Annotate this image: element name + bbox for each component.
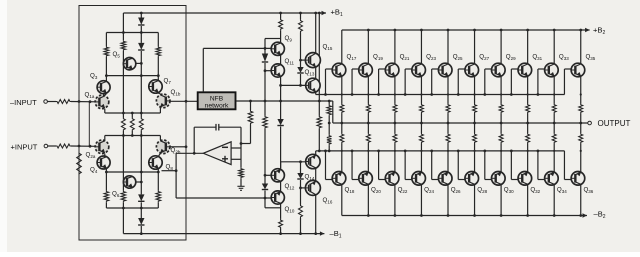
wire (Q18 collector) [341,185,343,216]
resistor (Q26 source R) [446,133,450,144]
node [553,93,555,95]
resistor (Q9 collector) [279,19,283,31]
Q7 label [164,78,172,85]
wire [300,13,302,19]
wire [104,154,106,157]
node [299,232,302,235]
wire (Q13 gate) [281,84,306,86]
wire [158,92,160,95]
node [553,150,555,152]
wire [351,69,353,95]
wire (Q20 emitter) [367,123,369,133]
wire (top interior line) [106,32,158,34]
transistor Q16 [305,180,320,195]
resistor (Q7 collector load) [156,46,161,57]
wire [159,136,161,141]
resistor (Q24 source R) [419,133,423,144]
wire [500,114,502,124]
transistor Q17 [332,63,346,77]
resistor (Q33 source R) [552,104,556,114]
wire [158,154,160,157]
resistor (input bias, on box edge) [77,152,82,175]
diode D4 (bias) [138,218,144,225]
wire (Q18 base) [326,179,333,181]
wire [315,92,317,94]
wire (Q30 base) [485,179,492,181]
resistor R-in1 (series -input) [56,100,71,104]
node [105,171,108,174]
resistor (gate bleed) [317,116,322,130]
resistor R-in2 (series +input) [56,144,71,148]
+B2 arrow [585,28,590,32]
node [580,93,582,95]
resistor (servo +in) [239,168,244,179]
wire [140,226,142,234]
node [341,93,343,95]
wire [159,108,161,113]
wire [527,144,529,172]
wire [510,69,512,95]
node [457,150,460,153]
node [377,150,380,153]
node [526,29,529,32]
wire [280,182,282,192]
node [185,145,188,148]
transistor Q24 [412,172,426,186]
node [447,122,450,125]
resistor (Q3 collector load) [104,46,109,57]
node [299,59,302,62]
Q31 label [532,54,542,61]
wire (Q28 emitter) [474,123,476,133]
wire [300,180,302,188]
node [340,122,343,125]
resistor (driver source R top) [327,105,332,117]
node [377,93,380,96]
Q3 label [90,73,98,80]
node [89,145,92,148]
wire [280,85,282,119]
transistor Q29 [492,63,506,77]
wire (Q23 emitter) [420,77,422,104]
node [430,93,433,96]
wire (Q30 collector) [500,185,502,216]
wire (Q35 emitter) [580,77,582,104]
transistor Q35 [571,63,585,77]
wire (Q22 emitter) [394,123,396,133]
wire (Q12 base) [265,174,271,176]
node [420,93,422,95]
wire [431,151,433,180]
transistor Q21 [385,63,399,77]
node [175,169,178,172]
wire (bottom gate bus) [316,150,565,152]
node [579,29,582,32]
resistor (Q20 source R) [366,133,370,144]
wire [140,131,142,136]
wire (Q19 emitter) [367,77,369,104]
wire (servo to lower drive) [175,153,177,198]
wire [264,101,266,116]
wire [431,69,433,95]
wire (Q24 base) [405,179,412,181]
wire [447,144,449,172]
resistor (Q36 source R) [579,133,583,144]
transistor Q6 [123,176,135,188]
wire (Q16 source) [315,195,317,234]
resistor (Q25 source R) [446,104,450,114]
OUTPUT label [598,119,631,128]
transistor Q4 [97,156,110,169]
wire (Q29 emitter) [500,77,502,104]
transistor Q19 [359,63,373,77]
node [394,93,396,95]
node [420,122,423,125]
input stage enclosure box [79,6,186,241]
node [500,122,503,125]
svg-text:network: network [205,103,229,110]
node [328,150,331,153]
wire (Q6 collector stub) [136,181,142,183]
wire (bleed column) [318,13,320,116]
wire (bias bridge bottom) [265,207,281,209]
wire [580,114,582,124]
node [140,171,143,174]
svg-text:+INPUT: +INPUT [11,143,38,152]
capacitor C1 [216,124,219,131]
node [122,112,125,115]
wire [105,33,107,47]
wire [140,136,142,195]
node [240,142,243,145]
transistor Q23 [412,63,426,77]
node [328,122,331,125]
wire [264,175,266,183]
transistor Q9 [271,42,284,55]
wire (Q1b base to summing node) [170,100,197,102]
wire [537,69,539,95]
node [473,122,476,125]
wire (Q23 base) [405,68,412,70]
node [510,93,513,96]
-B1 label [330,229,342,239]
node [264,69,267,72]
-B1 arrow [320,231,325,235]
wire (input tie) [88,102,90,147]
node [157,171,160,174]
transistor Q32 [518,172,532,186]
transistor Q14 [306,154,320,168]
node [527,150,529,152]
wire (Q29 collector) [500,30,502,63]
wire [394,144,396,172]
node [264,197,267,200]
Q18 label [345,187,355,194]
wire [122,131,124,136]
wire (Q5 collector stub) [136,62,142,64]
wire (Q32 collector) [527,185,529,216]
transistor Q5 [123,58,135,70]
wire [367,144,369,172]
wire [265,38,281,40]
wire [105,202,107,208]
wire [420,114,422,124]
wire [280,55,282,64]
node [140,207,143,210]
wire [104,136,106,141]
wire [105,169,107,191]
node (+input / box edge) [78,145,81,148]
transistor Q28 [465,172,479,186]
node [264,47,267,50]
wire (Q19 collector) [367,30,369,63]
wire [328,116,330,135]
node [430,150,433,153]
Q1b label [171,89,181,96]
node [500,29,503,32]
wire [484,151,486,180]
node [510,150,513,153]
transistor Q15 [305,53,320,68]
node [341,150,343,152]
wire [140,113,142,118]
wire [140,51,142,113]
resistor (Q16 gate feed) [299,205,303,219]
wire [420,144,422,172]
wire [105,94,106,96]
diode D9 [297,173,303,179]
wire (Q31 base) [511,68,518,70]
wire (Q25 emitter) [447,77,449,104]
node [279,100,282,103]
wire [328,101,330,105]
resistor (Q34 source R) [552,133,556,144]
node [122,134,125,137]
Q36 label [583,187,593,194]
node [157,74,160,77]
transistor Q25 [438,63,452,77]
wire (Q6 base feed) [122,136,124,191]
wire [553,114,555,124]
node [314,232,317,235]
node [404,93,407,96]
Q9 label [285,35,293,42]
node [420,150,422,152]
wire [122,13,124,40]
node [447,29,450,32]
resistor (Q19 source R) [366,104,370,114]
node [473,93,475,95]
Q4 label [90,167,98,174]
wire (bottom interior line) [106,207,158,209]
wire (Q36 emitter) [580,123,582,133]
resistor (Q8 load) [156,190,161,202]
-INPUT terminal [44,100,48,104]
wire (Q32 emitter) [527,123,529,133]
wire (Q17 emitter) [341,77,343,104]
diode D5 (centre bias) [277,119,283,126]
wire [240,179,242,187]
Q19 label [373,54,383,61]
wire [328,145,330,151]
wire [280,204,282,219]
wire [231,147,241,149]
wire (Q24 collector) [420,185,422,216]
wire (Q20 collector) [367,185,369,216]
node [483,93,486,96]
wire [474,114,476,124]
diode D6 (Q9/Q11 bias) [262,54,268,63]
wire [104,109,106,113]
wire (Q20 base) [352,179,359,181]
transistor Q27 [465,63,479,77]
wire [332,101,334,123]
wire (op-amp output) [176,152,203,154]
wire (Q2b base to summing node) [170,146,186,148]
wire [457,151,459,180]
node [299,12,302,15]
Q28 label [477,187,487,194]
Q15 label [323,44,333,51]
wire (Q28 base) [458,179,465,181]
+B1 arrow [322,11,327,15]
transistor Q26 [438,172,452,186]
node [483,150,486,153]
output line [333,122,588,124]
resistor (Q15 gate feed) [299,19,303,32]
node [264,100,267,103]
transistor Q7 [149,80,162,93]
resistor (driver source R bottom) [327,135,332,146]
Q2a label [86,152,96,159]
node [404,150,407,153]
wire (feedback line) [236,100,333,102]
wire [300,188,302,205]
resistor (Q18 source R) [340,133,344,144]
wire (Q8 tap) [162,170,177,172]
Q5 label [113,51,121,58]
diode D3 (bias) [138,194,144,201]
+B2 label [593,26,606,36]
node [553,29,556,32]
wire [367,114,369,124]
node [249,100,252,103]
svg-text:–INPUT: –INPUT [10,98,37,107]
-INPUT label [10,98,37,107]
transistor Q12 [271,169,284,182]
transistor Q31 [518,63,532,77]
wire [264,129,266,175]
Q13 label [305,69,315,76]
resistor (Q23 source R) [419,104,423,114]
wire [318,129,320,151]
OUTPUT terminal [588,121,592,125]
Q26 label [451,187,461,194]
node [140,112,143,115]
wire [300,218,302,234]
wire [484,69,486,95]
transistor Q1a (dual) [95,95,109,109]
wire [474,144,476,172]
wire [325,151,327,180]
node [328,100,331,103]
wire [157,33,159,47]
wire [280,13,282,19]
node [394,214,397,217]
transistor Q34 [545,172,559,186]
wire (Q34 emitter) [553,123,555,133]
resistor (Q10 collector) [279,219,283,229]
wire (Q14 gate) [281,161,306,163]
wire (Q26 collector) [447,185,449,216]
Q30 label [504,187,514,194]
wire [510,151,512,180]
wire (Q33 emitter) [553,77,555,104]
wire (top gate bus) [316,94,565,96]
node [580,150,582,152]
transistor Q13 [306,78,320,92]
node [140,31,143,34]
svg-text:NFB: NFB [210,95,224,102]
wire (Q15 gate) [301,59,306,61]
transistor Q1b (dual) [156,94,170,108]
node [473,150,475,152]
node [367,29,370,32]
node [318,12,321,15]
Q32 label [530,187,540,194]
op-amp U1 [203,142,231,165]
wire (NFB top pin) [202,48,204,92]
transistor Q2b (dual) [156,140,170,154]
wire (Q22 base) [379,179,386,181]
node [447,93,449,95]
resistor (Q28 source R) [473,133,477,144]
wire (Q36 collector) [580,185,582,216]
Q1a label [85,92,95,99]
wire (Q27 base) [458,68,465,70]
wire (Q34 collector) [553,185,555,216]
wire (Q11 base) [265,70,271,72]
diode D8 (Q12/Q10 bias) [262,184,268,190]
resistor (Q17 source R) [340,104,344,114]
wire (Q25 base) [432,68,439,70]
wire (Q19 base) [352,68,359,70]
transistor Q30 [492,172,506,186]
Q33 label [559,54,569,61]
node [500,214,503,217]
wire [378,151,380,180]
NFB network box [198,92,236,109]
wire (non-inverting input) [231,158,241,160]
node [324,150,327,153]
Q16 label [323,197,333,204]
wire [47,101,56,103]
wire [264,191,266,208]
wire (cascode tie line) [106,75,158,77]
+B1 label [331,8,344,18]
node [131,134,134,137]
resistor (Q6 base feed) [121,190,126,202]
resistor (bias divider) [263,116,268,130]
wire [157,169,159,191]
Q24 label [424,187,434,194]
wire [500,144,502,172]
node (-input / box edge) [78,100,81,103]
node [185,100,188,103]
node [420,29,423,32]
wire [219,126,241,128]
+B2 rail [342,29,590,31]
